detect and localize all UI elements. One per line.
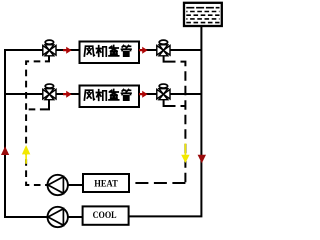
- svg-text:COOL: COOL: [93, 210, 117, 221]
- svg-text:HEAT: HEAT: [94, 179, 118, 190]
